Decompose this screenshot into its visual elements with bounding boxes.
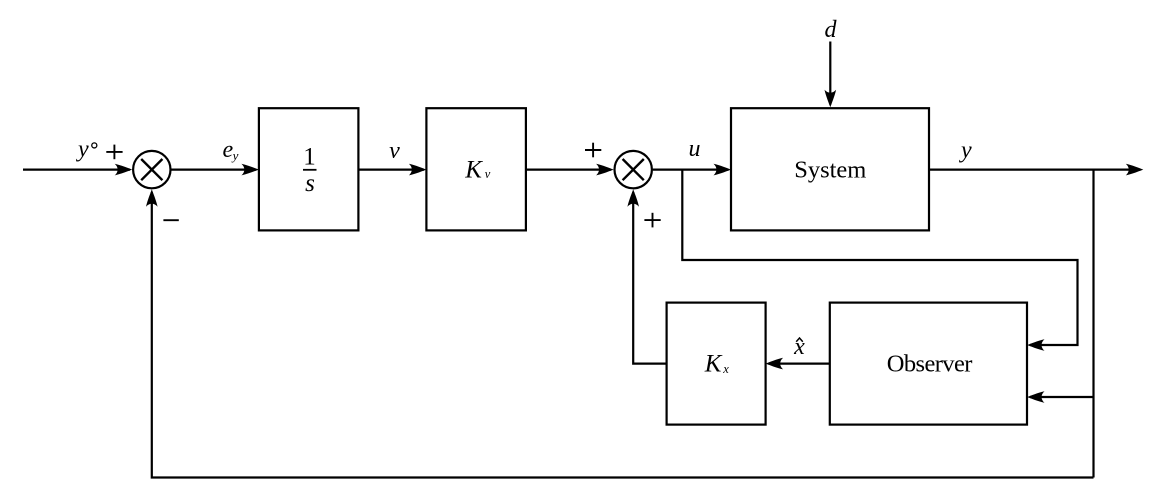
wire: y branch to Observer input 2 bbox=[1027, 391, 1094, 403]
svg-text:K: K bbox=[704, 351, 723, 378]
wire: reference input y° bbox=[23, 164, 132, 176]
wire: v integrator to Kv bbox=[358, 164, 426, 176]
node: summing junction J2 bbox=[615, 151, 652, 188]
label e_y bbox=[223, 137, 239, 163]
block 1/s integrator bbox=[259, 108, 359, 230]
svg-text:u: u bbox=[689, 136, 701, 162]
wire: x-hat Observer to Kx bbox=[766, 358, 830, 370]
node: summing junction J1 bbox=[133, 151, 170, 188]
svg-text:s: s bbox=[305, 170, 315, 197]
svg-text:System: System bbox=[794, 156, 866, 183]
wire: y System output bbox=[929, 164, 1143, 176]
wire: u branch to Observer input 1 bbox=[682, 170, 1077, 351]
block Kx bbox=[667, 303, 766, 425]
svg-text:v: v bbox=[485, 167, 491, 181]
wire: u junction J2 to System bbox=[653, 164, 731, 176]
label + left of J2 bbox=[585, 143, 601, 158]
svg-text:y: y bbox=[76, 137, 89, 163]
svg-text:1: 1 bbox=[303, 144, 316, 171]
label Kx in Kx block bbox=[704, 351, 730, 378]
label − at J1 feedback bbox=[163, 219, 178, 221]
svg-text:y: y bbox=[959, 138, 972, 164]
label Kv in Kv block bbox=[464, 157, 491, 184]
block Observer bbox=[830, 303, 1027, 425]
svg-text:K: K bbox=[464, 157, 483, 184]
wire: y branch down right side bbox=[1092, 170, 1094, 478]
label + below J2 bbox=[644, 213, 660, 228]
label y° bbox=[76, 137, 97, 163]
block Kv bbox=[426, 108, 526, 230]
wire: e_y junction J1 to integrator bbox=[171, 164, 259, 176]
wire: output feedback to junction J1 bbox=[146, 189, 1094, 477]
label 1/s in integrator bbox=[303, 144, 317, 197]
svg-text:d: d bbox=[825, 17, 838, 43]
block System bbox=[731, 108, 929, 230]
label + at J1 bbox=[106, 145, 122, 160]
wire: Kx up to junction J2 bbox=[627, 189, 666, 363]
svg-text:v: v bbox=[389, 138, 400, 164]
svg-text:Observer: Observer bbox=[887, 351, 972, 378]
svg-text:y: y bbox=[231, 148, 239, 163]
svg-text:x: x bbox=[722, 362, 729, 376]
label x-hat bbox=[793, 334, 805, 360]
wire: disturbance d into System bbox=[825, 42, 837, 108]
wire: Kv to junction J2 bbox=[526, 164, 614, 176]
